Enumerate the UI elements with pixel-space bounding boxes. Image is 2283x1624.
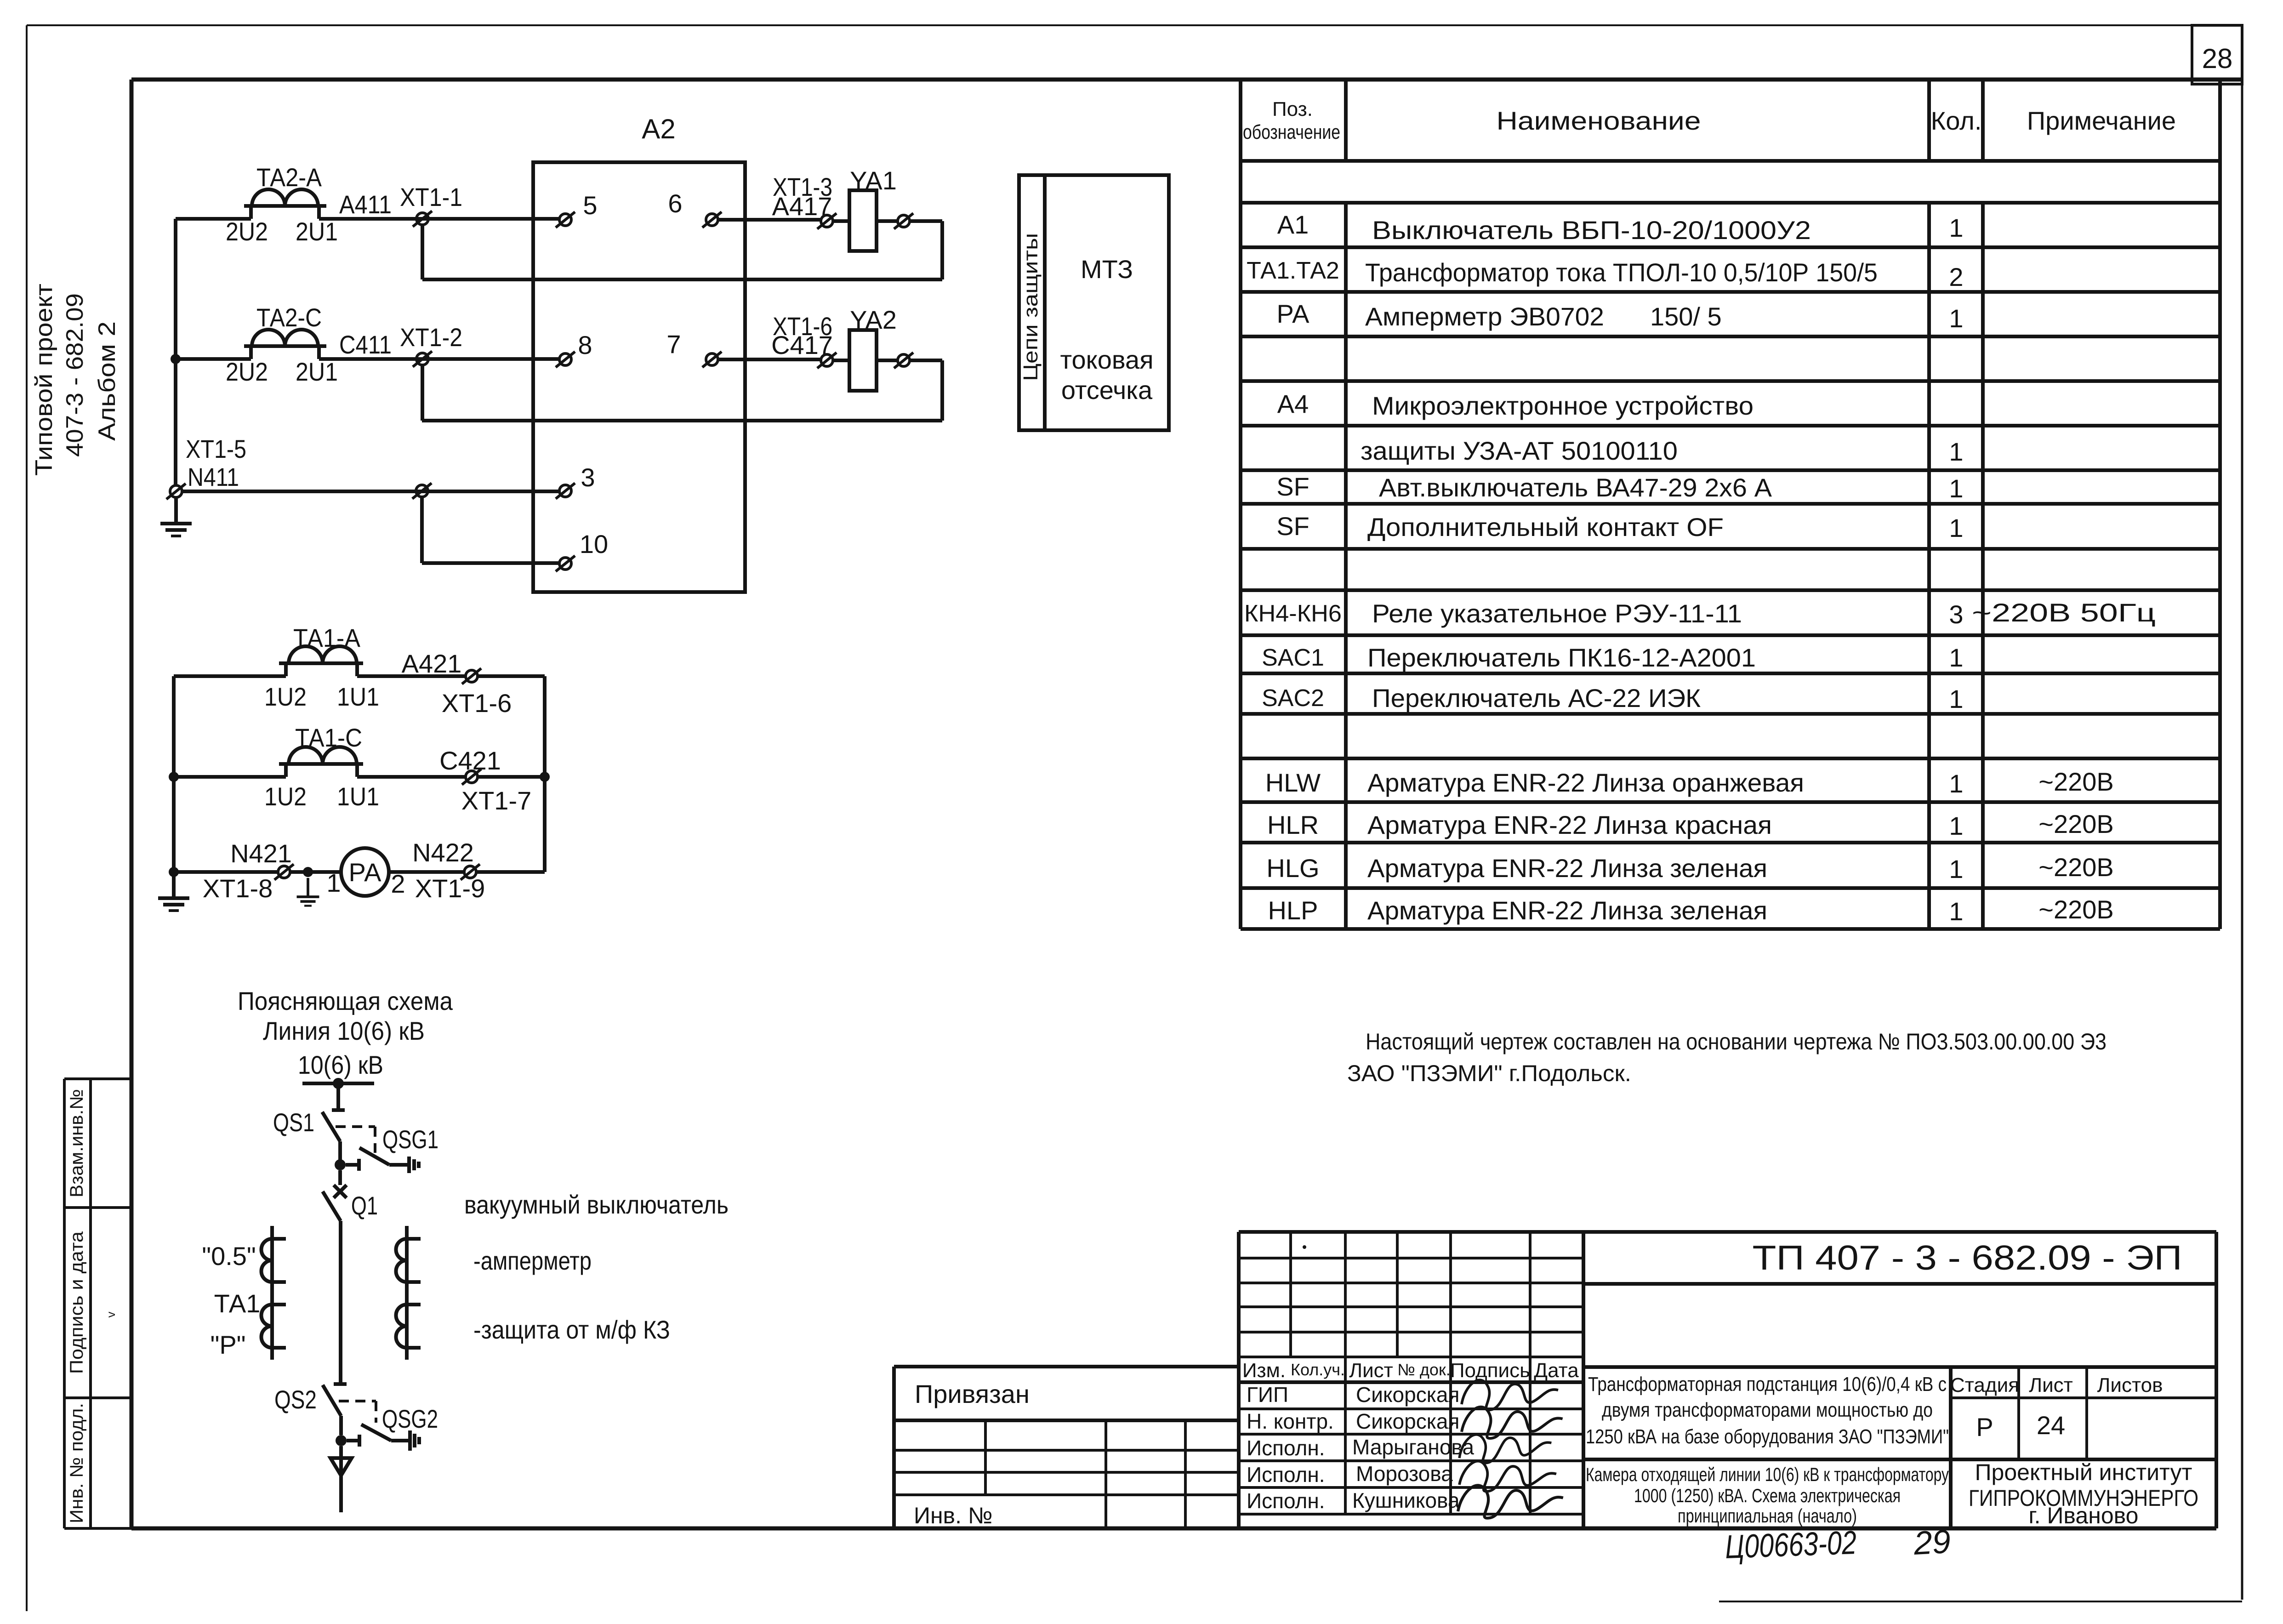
svg-text:SF: SF (1276, 512, 1309, 541)
svg-text:7: 7 (666, 330, 681, 359)
svg-text:2U1: 2U1 (296, 217, 338, 246)
svg-text:ГИП: ГИП (1247, 1383, 1288, 1407)
svg-text:3: 3 (581, 463, 595, 492)
svg-text:Марыганова: Марыганова (1352, 1435, 1474, 1459)
svg-text:24: 24 (2037, 1411, 2065, 1440)
svg-text:ХТ1-2: ХТ1-2 (400, 323, 462, 352)
svg-text:HLP: HLP (1268, 896, 1318, 925)
svg-text:Выключатель ВБП-10-20/1000У2: Выключатель ВБП-10-20/1000У2 (1372, 216, 1811, 245)
svg-text:QS2: QS2 (274, 1385, 317, 1414)
svg-text:29: 29 (1913, 1523, 1952, 1562)
svg-text:~220В: ~220В (2038, 767, 2114, 796)
svg-text:10: 10 (580, 530, 608, 558)
svg-text:№ док.: № док. (1397, 1360, 1450, 1379)
svg-text:Исполн.: Исполн. (1247, 1436, 1325, 1460)
svg-text:г. Иваново: г. Иваново (2029, 1503, 2139, 1528)
svg-text:QS1: QS1 (273, 1108, 314, 1137)
svg-text:1250 кВА на базе оборудования: 1250 кВА на базе оборудования ЗАО "ПЗЭМИ… (1586, 1425, 1949, 1448)
svg-text:защиты УЗА-АТ 50100110: защиты УЗА-АТ 50100110 (1361, 436, 1678, 465)
svg-text:2: 2 (1949, 262, 1963, 291)
svg-text:-защита от м/ф КЗ: -защита от м/ф КЗ (473, 1315, 670, 1344)
svg-text:1: 1 (326, 868, 341, 897)
svg-text:2U1: 2U1 (296, 357, 338, 386)
svg-text:1: 1 (1949, 304, 1963, 333)
svg-text:Альбом 2: Альбом 2 (94, 321, 120, 441)
svg-text:Амперметр ЭВ0702: Амперметр ЭВ0702 (1365, 302, 1604, 331)
svg-text:Инв. № подл.: Инв. № подл. (67, 1403, 87, 1523)
svg-text:407-3 - 682.09: 407-3 - 682.09 (62, 293, 88, 457)
svg-text:ЗАО "ПЗЭМИ" г.Подольск.: ЗАО "ПЗЭМИ" г.Подольск. (1347, 1060, 1631, 1086)
svg-text:1000 (1250) кВА. Схема электри: 1000 (1250) кВА. Схема электрическая (1634, 1485, 1901, 1506)
svg-text:А2: А2 (642, 114, 675, 144)
svg-text:ХТ1-7: ХТ1-7 (461, 786, 532, 815)
svg-text:обозначение: обозначение (1243, 121, 1340, 143)
svg-text:ТП 407 - 3 - 682.09 - ЭП: ТП 407 - 3 - 682.09 - ЭП (1753, 1238, 2182, 1277)
svg-text:А4: А4 (1277, 389, 1309, 418)
svg-text:ХТ1-6: ХТ1-6 (442, 689, 512, 718)
svg-text:принципиальная (начало): принципиальная (начало) (1678, 1505, 1857, 1527)
svg-text:Линия 10(6) кВ: Линия 10(6) кВ (263, 1016, 425, 1045)
svg-text:QSG2: QSG2 (382, 1404, 438, 1433)
svg-text:YA2: YA2 (850, 305, 897, 334)
svg-text:Кол.уч.: Кол.уч. (1291, 1360, 1345, 1379)
svg-text:Дата: Дата (1534, 1359, 1579, 1382)
svg-text:Исполн.: Исполн. (1247, 1489, 1325, 1513)
svg-text:Лист: Лист (2029, 1374, 2073, 1396)
svg-text:N421: N421 (230, 839, 292, 868)
svg-text:~220В 50Гц: ~220В 50Гц (1972, 598, 2156, 627)
svg-text:~220В: ~220В (2038, 809, 2114, 838)
svg-text:Подпись: Подпись (1450, 1359, 1530, 1382)
svg-text:Камера отходящей линии 10(6) к: Камера отходящей линии 10(6) кВ к трансф… (1586, 1464, 1949, 1485)
svg-text:А1: А1 (1277, 210, 1309, 239)
svg-text:Цепи защиты: Цепи защиты (1019, 233, 1042, 381)
svg-text:Исполн.: Исполн. (1247, 1463, 1325, 1487)
svg-text:1: 1 (1949, 855, 1963, 883)
svg-text:Переключатель АС-22 ИЭК: Переключатель АС-22 ИЭК (1372, 684, 1701, 712)
svg-text:Лист: Лист (1349, 1359, 1393, 1382)
svg-text:2U2: 2U2 (226, 217, 268, 246)
svg-text:YA1: YA1 (850, 166, 897, 195)
svg-text:Н. контр.: Н. контр. (1247, 1409, 1334, 1433)
svg-text:Листов: Листов (2097, 1374, 2163, 1396)
svg-text:Стадия: Стадия (1950, 1374, 2019, 1396)
svg-text:Авт.выключатель ВА47-29 2х6 А: Авт.выключатель ВА47-29 2х6 А (1379, 473, 1772, 502)
svg-text:10(6) кВ: 10(6) кВ (298, 1050, 383, 1079)
svg-text:РА: РА (349, 858, 382, 887)
svg-text:1: 1 (1949, 474, 1963, 503)
svg-text:1: 1 (1949, 769, 1963, 798)
svg-text:HLW: HLW (1265, 768, 1321, 797)
svg-text:~220В: ~220В (2038, 895, 2114, 924)
svg-text:1U1: 1U1 (337, 682, 379, 711)
svg-text:1: 1 (1949, 643, 1963, 672)
svg-text:ХТ1-9: ХТ1-9 (415, 874, 485, 903)
svg-text:ТА1: ТА1 (214, 1289, 261, 1318)
svg-text:Инв. №: Инв. № (914, 1503, 993, 1528)
svg-text:1: 1 (1949, 811, 1963, 840)
svg-text:2: 2 (391, 869, 405, 898)
svg-text:токовая: токовая (1060, 345, 1153, 374)
svg-text:Типовой проект: Типовой проект (31, 284, 57, 476)
svg-text:ХТ1-5: ХТ1-5 (186, 434, 246, 463)
svg-text:А411: А411 (339, 190, 392, 219)
svg-text:ТА1-С: ТА1-С (295, 723, 362, 752)
svg-text:HLR: HLR (1267, 810, 1319, 839)
svg-text:МТЗ: МТЗ (1081, 255, 1133, 284)
svg-text:Арматура ENR-22 Линза оранжева: Арматура ENR-22 Линза оранжевая (1367, 768, 1804, 797)
svg-text:ХТ1-1: ХТ1-1 (400, 182, 462, 211)
svg-text:Реле указательное РЭУ-11-11: Реле указательное РЭУ-11-11 (1372, 599, 1742, 628)
svg-text:HLG: HLG (1266, 854, 1319, 883)
svg-text:Арматура ENR-22 Линза красная: Арматура ENR-22 Линза красная (1367, 810, 1772, 839)
svg-text:Дополнительный контакт ОF: Дополнительный контакт ОF (1367, 513, 1724, 541)
svg-text:Морозова: Морозова (1356, 1462, 1453, 1486)
svg-text:28: 28 (2202, 43, 2233, 74)
svg-text:1: 1 (1949, 897, 1963, 926)
svg-text:QSG1: QSG1 (382, 1125, 438, 1154)
svg-text:"Р": "Р" (210, 1330, 245, 1359)
svg-text:ХТ1-8: ХТ1-8 (203, 874, 273, 903)
svg-text:SF: SF (1276, 472, 1309, 501)
svg-text:-амперметр: -амперметр (473, 1246, 592, 1275)
svg-text:N422: N422 (412, 838, 474, 867)
svg-text:1: 1 (1949, 684, 1963, 713)
svg-text:Проектный институт: Проектный институт (1975, 1459, 2192, 1485)
svg-text:ТА1-А: ТА1-А (293, 623, 361, 652)
svg-text:отсечка: отсечка (1061, 376, 1153, 405)
svg-text:Трансформатор тока ТПОЛ-10 0,: Трансформатор тока ТПОЛ-10 0,5/10Р 150/5 (1365, 258, 1878, 287)
svg-text:С421: С421 (439, 746, 501, 775)
svg-text:Ц00663-02: Ц00663-02 (1725, 1524, 1857, 1566)
svg-text:С411: С411 (339, 330, 392, 359)
svg-text:1U1: 1U1 (337, 782, 379, 811)
svg-text:Кушникова: Кушникова (1352, 1488, 1460, 1512)
svg-text:Микроэлектронное устройство: Микроэлектронное устройство (1372, 391, 1754, 420)
svg-text:"0.5": "0.5" (202, 1242, 256, 1271)
svg-text:2U2: 2U2 (226, 357, 268, 386)
svg-text:А417: А417 (772, 192, 832, 221)
svg-text:Трансформаторная подстанция 10: Трансформаторная подстанция 10(6)/0,4 кВ… (1588, 1373, 1947, 1396)
svg-text:SAC1: SAC1 (1262, 644, 1324, 671)
svg-text:1U2: 1U2 (264, 782, 307, 811)
svg-text:N411: N411 (188, 462, 239, 491)
svg-text:ТА2-А: ТА2-А (256, 163, 322, 192)
svg-text:вакуумный выключатель: вакуумный выключатель (464, 1190, 729, 1219)
svg-text:Сикорская: Сикорская (1356, 1383, 1459, 1407)
svg-text:8: 8 (578, 330, 592, 359)
svg-text:1U2: 1U2 (264, 682, 307, 711)
svg-text:~220В: ~220В (2038, 853, 2114, 882)
svg-text:Настоящий чертеж составлен на: Настоящий чертеж составлен на основании … (1366, 1029, 2107, 1054)
svg-text:v: v (104, 1312, 118, 1318)
svg-text:РА: РА (1277, 299, 1310, 328)
svg-text:двумя трансформаторами мощност: двумя трансформаторами мощностью до (1602, 1399, 1933, 1421)
svg-text:А421: А421 (402, 649, 462, 678)
svg-text:3: 3 (1949, 600, 1963, 629)
svg-text:Примечание: Примечание (2027, 106, 2176, 135)
svg-text:Кол.: Кол. (1931, 106, 1982, 135)
svg-text:1: 1 (1949, 513, 1963, 542)
svg-text:Поз.: Поз. (1272, 98, 1313, 120)
svg-text:С417: С417 (771, 330, 833, 359)
svg-text:Арматура ENR-22 Линза зеленая: Арматура ENR-22 Линза зеленая (1367, 896, 1767, 925)
svg-text:Сикорская: Сикорская (1356, 1409, 1459, 1433)
svg-text:КН4-КН6: КН4-КН6 (1244, 600, 1342, 627)
svg-text:1: 1 (1949, 213, 1963, 242)
svg-text:Наименование: Наименование (1497, 106, 1701, 135)
svg-text:Привязан: Привязан (915, 1379, 1030, 1408)
svg-text:5: 5 (583, 191, 597, 220)
svg-text:Взам.инв.№: Взам.инв.№ (67, 1089, 87, 1197)
svg-text:Р: Р (1976, 1413, 1993, 1442)
svg-text:Подпись и дата: Подпись и дата (67, 1231, 87, 1374)
svg-text:150/ 5: 150/ 5 (1650, 302, 1722, 331)
svg-text:Поясняющая схема: Поясняющая схема (238, 986, 453, 1015)
svg-text:Переключатель ПК16-12-А2001: Переключатель ПК16-12-А2001 (1367, 643, 1756, 672)
svg-text:Арматура ENR-22 Линза зеленая: Арматура ENR-22 Линза зеленая (1367, 854, 1767, 883)
svg-text:1: 1 (1949, 437, 1963, 466)
svg-text:SAC2: SAC2 (1262, 685, 1324, 712)
svg-text:6: 6 (668, 189, 682, 218)
svg-text:ТА1.ТА2: ТА1.ТА2 (1247, 257, 1339, 284)
svg-text:ТА2-С: ТА2-С (256, 303, 322, 332)
svg-text:Изм.: Изм. (1242, 1359, 1286, 1382)
svg-text:Q1: Q1 (351, 1191, 378, 1220)
